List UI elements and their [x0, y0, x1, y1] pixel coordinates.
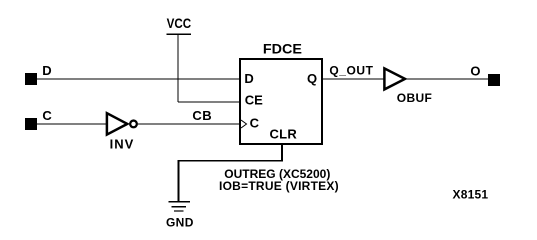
svg-text:OBUF: OBUF [397, 91, 432, 105]
VCC symbol [167, 33, 192, 35]
svg-text:C: C [250, 116, 260, 131]
wire C pad to inverter input [36, 123, 107, 125]
svg-text:VCC: VCC [167, 16, 192, 31]
wire VCC stem [177, 34, 179, 102]
svg-text:Q: Q [307, 71, 317, 86]
svg-text:FDCE: FDCE [263, 40, 302, 56]
inverter INV bubble [130, 121, 137, 128]
inverter INV body [107, 113, 127, 134]
svg-text:IOB=TRUE (VIRTEX): IOB=TRUE (VIRTEX) [219, 179, 339, 193]
wire CE net (VCC to CE pin) [178, 101, 240, 103]
svg-text:D: D [42, 63, 51, 78]
wire CB net (inverter output to C pin) [138, 123, 240, 125]
svg-text:CLR: CLR [270, 127, 298, 142]
buffer OBUF body [384, 68, 405, 89]
svg-text:Q_OUT: Q_OUT [329, 64, 373, 78]
ground symbol [169, 202, 191, 211]
svg-text:CE: CE [245, 93, 263, 108]
svg-text:C: C [42, 108, 52, 123]
svg-text:O: O [470, 64, 480, 79]
wire Q_OUT net (Q pin to OBUF) [322, 78, 384, 80]
svg-text:X8151: X8151 [453, 188, 489, 202]
svg-text:CB: CB [192, 108, 212, 123]
wire CLR pin stem [281, 144, 283, 161]
output pad O [488, 74, 500, 86]
wire CLR horizontal run [178, 160, 283, 162]
svg-text:GND: GND [166, 216, 194, 230]
svg-text:INV: INV [110, 137, 135, 152]
clock chevron at pin C [241, 120, 247, 128]
wire D net [36, 78, 240, 80]
wire O net (OBUF to output pad) [406, 78, 488, 80]
input pad C [25, 118, 37, 130]
wire GND stem [178, 160, 180, 201]
svg-text:D: D [244, 71, 253, 86]
flip-flop U1 FDCE body [240, 59, 322, 144]
input pad D [25, 73, 37, 85]
